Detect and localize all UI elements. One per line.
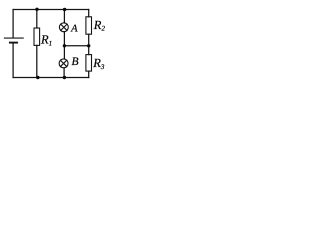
resistor R1	[34, 28, 40, 45]
node: middle junction at right branch	[87, 44, 90, 47]
wire: middle branch top (to lamp A)	[63, 10, 65, 24]
svg-text:R2: R2	[93, 18, 106, 33]
wire: bottom rail	[13, 77, 89, 79]
wire: left side upper (to battery)	[12, 10, 14, 38]
lamp A	[59, 23, 68, 32]
wire: left side lower (battery to bottom rail)	[12, 43, 14, 78]
lamp B	[59, 59, 68, 68]
wire: R1 branch lower	[36, 45, 38, 77]
svg-text:B: B	[72, 56, 79, 68]
wire: top rail	[13, 9, 89, 11]
wire: middle horizontal link	[64, 45, 88, 47]
node: top rail / R1 branch junction	[35, 8, 38, 11]
node: bottom rail / R1 branch junction	[36, 76, 39, 79]
wire: R1 branch upper	[36, 10, 38, 29]
battery cell	[4, 38, 23, 43]
wire: lamp B to bottom rail	[63, 68, 65, 78]
node: middle junction between lamps	[63, 44, 66, 47]
resistor R3	[86, 55, 92, 72]
node: top rail / lamp branch junction	[63, 8, 66, 11]
resistor R2	[86, 17, 92, 34]
wire: right branch top (top rail to R2)	[88, 10, 90, 17]
svg-text:R3: R3	[92, 56, 105, 71]
svg-text:A: A	[70, 24, 78, 35]
wire: lamp A to middle node	[63, 32, 65, 46]
wire: R2 to middle node	[88, 34, 90, 46]
wire: middle node to lamp B	[63, 46, 65, 59]
wire: R3 to bottom rail	[88, 71, 90, 77]
svg-text:R1: R1	[40, 33, 52, 48]
node: bottom rail / lamp branch junction	[63, 76, 66, 79]
wire: middle node to R3	[88, 46, 90, 55]
